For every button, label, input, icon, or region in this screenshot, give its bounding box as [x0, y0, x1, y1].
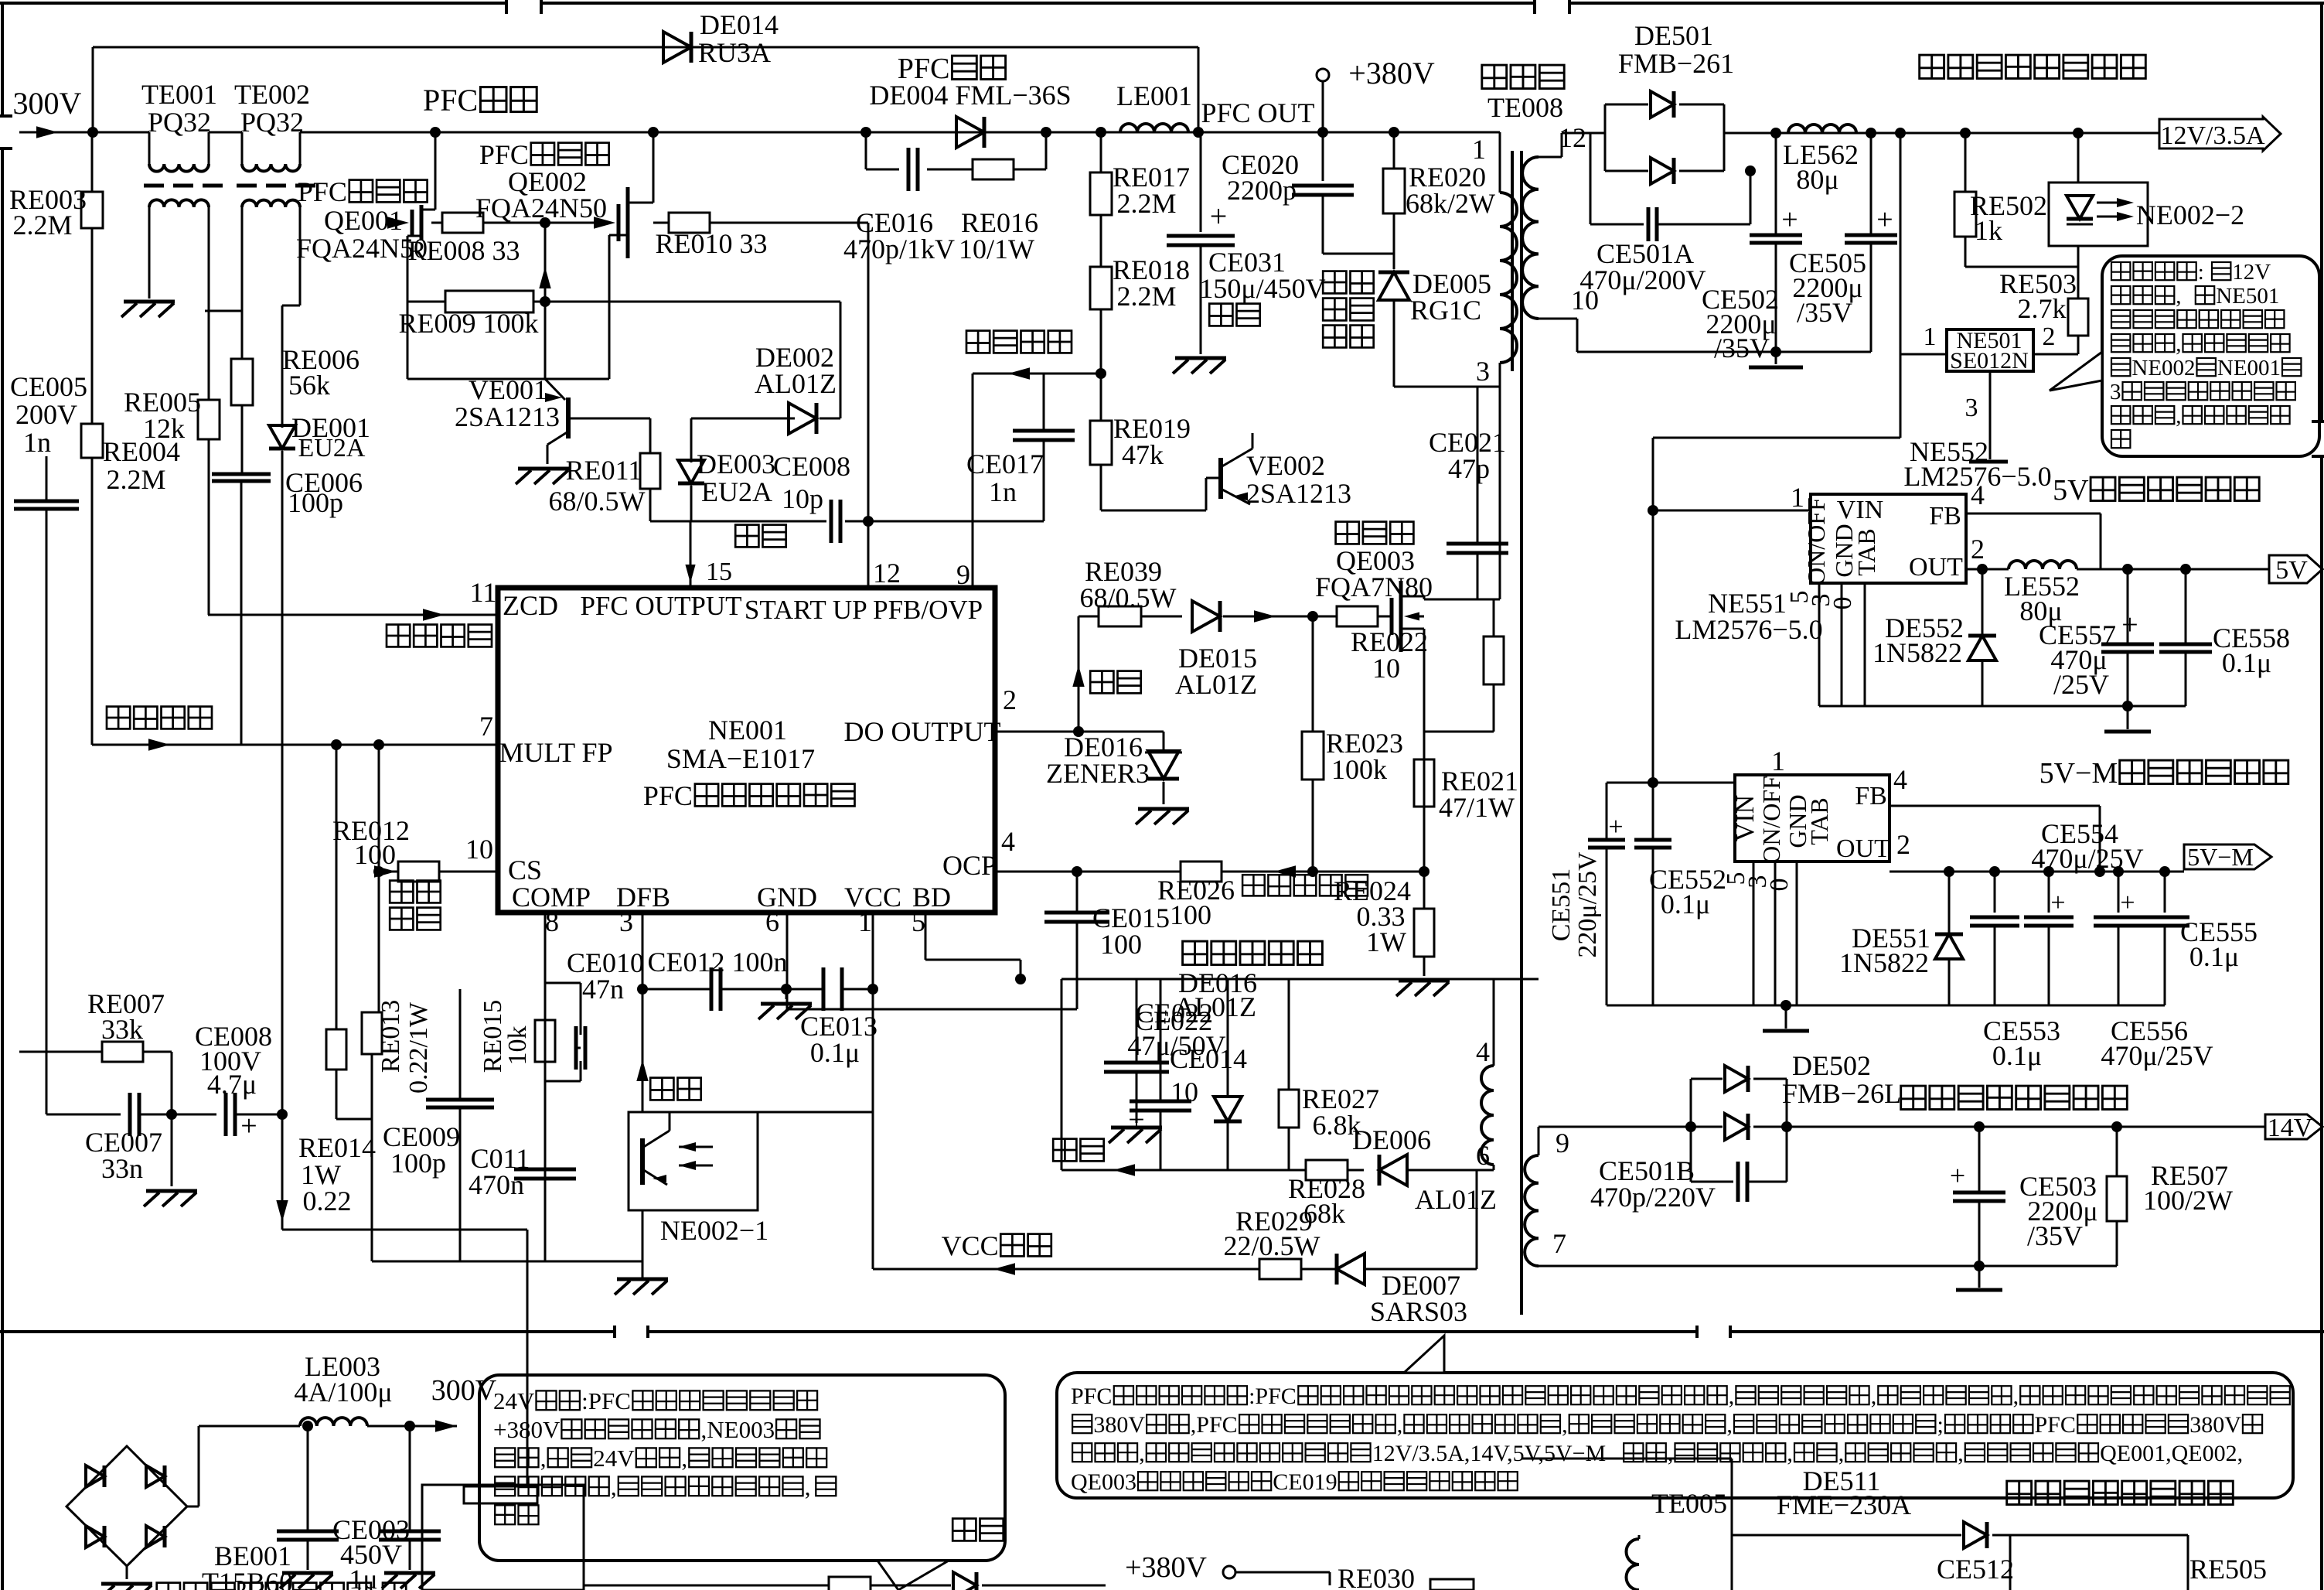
- svg-text:8: 8: [545, 906, 559, 937]
- svg-text:2SA1213: 2SA1213: [1246, 478, 1351, 509]
- svg-text:1: 1: [1472, 134, 1486, 165]
- wire opto collector: [670, 989, 873, 1131]
- capacitor CE008b: [172, 1021, 282, 1142]
- svg-text:/35V: /35V: [2027, 1220, 2083, 1251]
- capacitor CE031: [1167, 132, 1326, 354]
- svg-text:,: ,: [611, 1473, 617, 1500]
- wire emitter row: [407, 378, 609, 380]
- label NE552: [1903, 436, 2051, 492]
- svg-text:,: ,: [681, 1445, 687, 1472]
- return bus 10: [1539, 285, 1871, 357]
- NE003 box: [422, 1485, 584, 1590]
- label DE016: [1174, 967, 1257, 1022]
- resistor RE008: [407, 213, 545, 266]
- svg-text:1: 1: [858, 906, 872, 937]
- label CE022: [1127, 1005, 1225, 1061]
- svg-text:CE008: CE008: [773, 451, 850, 482]
- svg-text:,: ,: [2176, 404, 2181, 428]
- svg-text:FMB−26L: FMB−26L: [1782, 1078, 1901, 1109]
- diode DE016z: [1046, 732, 1182, 804]
- resistor RE026: [1157, 862, 1429, 930]
- svg-text:300V: 300V: [13, 86, 82, 121]
- label mains sample: [107, 707, 212, 729]
- capacitor CE007: [46, 1093, 177, 1184]
- diode DE015: [1175, 601, 1337, 700]
- capacitor CE005: [10, 371, 87, 1114]
- flag 12V: [2159, 117, 2281, 151]
- capacitor CE557: [2039, 564, 2154, 706]
- wire down to startup: [276, 1109, 527, 1485]
- pin 3: [619, 906, 642, 1112]
- capacitor CE555: [2140, 866, 2258, 1005]
- svg-text:,: ,: [1871, 1384, 1877, 1409]
- svg-text:220μ/25V: 220μ/25V: [1573, 851, 1602, 958]
- svg-text:NE002−1: NE002−1: [660, 1215, 768, 1246]
- label PFC OUT: [1201, 97, 1314, 128]
- svg-text:470p/220V: 470p/220V: [1590, 1182, 1716, 1213]
- pin 11: [208, 577, 498, 621]
- svg-text:47k: 47k: [1122, 439, 1164, 470]
- label 380V bottom: [1125, 1551, 1235, 1584]
- svg-text:PFC: PFC: [298, 176, 347, 207]
- svg-text::PFC: :PFC: [581, 1387, 631, 1414]
- svg-text:RE010 33: RE010 33: [655, 228, 767, 259]
- mosfet QE003: [1392, 581, 1424, 872]
- svg-text:AL01Z: AL01Z: [1415, 1184, 1497, 1215]
- resistor RE021: [1414, 759, 1518, 823]
- pin 8: [545, 906, 559, 1261]
- svg-text:100k: 100k: [1331, 754, 1387, 785]
- label 14V title: [1901, 1086, 2128, 1109]
- svg-text:+: +: [1781, 203, 1798, 236]
- feedback top line: [1015, 974, 1539, 1170]
- label +380V: [1317, 56, 1435, 132]
- NE552 pin4: [1966, 479, 2101, 569]
- border frame left: [0, 3, 12, 1590]
- svg-text:2: 2: [1003, 684, 1017, 715]
- wire 300V rail: [209, 131, 1120, 134]
- resistor RE007: [19, 988, 172, 1114]
- label start: [952, 1519, 1004, 1541]
- svg-text:RE505: RE505: [2189, 1554, 2267, 1585]
- svg-text:+380V: +380V: [1348, 56, 1435, 90]
- resistor RE012: [332, 815, 498, 882]
- ground DE016z: [1136, 809, 1189, 824]
- svg-text:+: +: [2121, 609, 2138, 641]
- svg-text:QE001,QE002,: QE001,QE002,: [2100, 1441, 2243, 1466]
- svg-text:150μ/450V: 150μ/450V: [1199, 273, 1325, 304]
- svg-text:2: 2: [2043, 322, 2056, 351]
- ground RE024: [1396, 981, 1450, 996]
- resistor RE005: [124, 311, 242, 615]
- svg-text:2.2M: 2.2M: [106, 464, 165, 495]
- separator line: [0, 1326, 2324, 1338]
- svg-text:,: ,: [1838, 1441, 1845, 1466]
- svg-text:MULT FP: MULT FP: [499, 737, 612, 768]
- pin 12: [873, 558, 901, 589]
- svg-text:DE502: DE502: [1792, 1050, 1871, 1081]
- svg-text:1k: 1k: [1975, 215, 2002, 246]
- svg-text:1n: 1n: [989, 476, 1017, 507]
- TE008 primary: [1472, 132, 1517, 387]
- svg-text:TE008: TE008: [1487, 92, 1563, 123]
- NE552 pin1: [1653, 482, 1811, 513]
- inductor LE562: [1783, 125, 1859, 195]
- optocoupler NE002-2: [2049, 133, 2244, 246]
- wire drive vertical: [539, 217, 550, 379]
- diode DE552: [1872, 564, 1996, 706]
- wire opto emitter: [642, 1210, 644, 1261]
- resistor RE503: [1999, 246, 2088, 354]
- svg-text:START UP PFB/OVP: START UP PFB/OVP: [745, 595, 983, 625]
- svg-text:/35V: /35V: [1797, 297, 1852, 328]
- mosfet QE001: [387, 127, 441, 379]
- svg-text:2.2M: 2.2M: [1116, 188, 1176, 219]
- svg-text:6: 6: [1476, 1140, 1490, 1171]
- svg-text:470p/1kV: 470p/1kV: [843, 234, 955, 264]
- startup wire: [584, 1572, 1106, 1590]
- svg-text:80μ: 80μ: [1796, 164, 1838, 195]
- diode DE007: [1337, 1254, 1477, 1327]
- label spike absorb: [1323, 271, 1374, 348]
- pin15 feed: [685, 521, 732, 586]
- wire base row: [691, 418, 795, 420]
- capacitor CE553c: [1970, 866, 2060, 1071]
- svg-text:RE004: RE004: [103, 436, 180, 467]
- label CE512: [1937, 1535, 2014, 1590]
- svg-text:10k: 10k: [503, 1026, 532, 1066]
- label PFC circuit: [423, 83, 537, 118]
- svg-text:+: +: [2120, 889, 2135, 917]
- svg-text:+: +: [1950, 1160, 1965, 1191]
- diode DEfb: [1214, 979, 1242, 1170]
- svg-text:RE014: RE014: [298, 1132, 376, 1163]
- svg-text:FB: FB: [1929, 502, 1961, 531]
- svg-text:5V: 5V: [2053, 474, 2089, 507]
- NE551 pin1: [1653, 746, 1785, 783]
- svg-text:56k: 56k: [288, 370, 330, 401]
- NE552 pin2: [1966, 534, 1985, 569]
- svg-text:VCC: VCC: [942, 1230, 999, 1261]
- bottom wire: [1732, 1522, 2188, 1548]
- svg-text:RE030: RE030: [1337, 1563, 1415, 1590]
- svg-text:0.22: 0.22: [303, 1186, 352, 1216]
- svg-text:PFC: PFC: [643, 780, 693, 811]
- svg-text:SMA−E1017: SMA−E1017: [666, 743, 815, 774]
- svg-text:33n: 33n: [101, 1153, 143, 1184]
- svg-text:100/2W: 100/2W: [2143, 1185, 2233, 1216]
- wire CS vertical: [373, 739, 384, 1012]
- svg-text:10: 10: [1571, 285, 1599, 316]
- svg-text:,: ,: [1139, 1441, 1145, 1466]
- ground bus gnd: [787, 1008, 1077, 1011]
- label feedback: [1053, 1139, 1104, 1162]
- diode DE006: [1352, 1124, 1497, 1215]
- label bottom title: [2007, 1481, 2234, 1504]
- svg-text:100: 100: [354, 839, 396, 870]
- svg-text:PFC: PFC: [479, 139, 529, 170]
- svg-text:+: +: [240, 1110, 257, 1142]
- capacitor CE022: [1128, 979, 1213, 1170]
- capacitor CE503: [1950, 1121, 2098, 1266]
- ground CE031: [1173, 358, 1226, 374]
- flag 5V: [2269, 555, 2322, 585]
- svg-text:68/0.5W: 68/0.5W: [1080, 582, 1177, 613]
- pin 9: [956, 374, 973, 590]
- svg-text:2: 2: [1896, 829, 1910, 860]
- svg-text:+: +: [1210, 199, 1228, 234]
- svg-text:200V: 200V: [15, 399, 77, 430]
- TE008 sec 9-7: [1525, 1127, 1691, 1266]
- svg-text:CE012 100n: CE012 100n: [647, 947, 787, 978]
- svg-text:PFC: PFC: [423, 83, 478, 118]
- svg-text:TE005: TE005: [1651, 1488, 1727, 1519]
- svg-text:RE008 33: RE008 33: [407, 235, 520, 266]
- resistor RE029: [1224, 1206, 1336, 1279]
- svg-text:10: 10: [465, 834, 493, 865]
- capacitor CE551: [1547, 783, 1653, 1005]
- diode DE004: [956, 117, 984, 148]
- svg-text:CE551: CE551: [1547, 868, 1576, 941]
- IC NE551: [1731, 775, 1890, 864]
- node 300V input wire: [13, 86, 149, 138]
- NE551 pin2: [1890, 829, 2184, 877]
- svg-text:SARS03: SARS03: [1370, 1296, 1467, 1327]
- svg-text:6: 6: [765, 906, 779, 937]
- flag 5VM: [2184, 843, 2271, 871]
- ground VE001: [516, 469, 569, 484]
- svg-text:12: 12: [1559, 122, 1586, 153]
- resistor RE507: [2107, 1121, 2233, 1266]
- svg-text:PFC OUTPUT: PFC OUTPUT: [580, 591, 741, 621]
- svg-text:2.2M: 2.2M: [1116, 281, 1176, 312]
- resistor RE011: [549, 418, 660, 521]
- svg-text:10p: 10p: [782, 483, 823, 514]
- border frame right: [2312, 3, 2324, 1590]
- svg-text::PFC: :PFC: [1249, 1384, 1297, 1409]
- callout PFC box: [1057, 1336, 2293, 1498]
- svg-text:,: ,: [2013, 1384, 2019, 1409]
- svg-text:FQA24N50: FQA24N50: [475, 193, 607, 223]
- inductor LE003: [199, 1351, 497, 1432]
- pin 4: [995, 826, 1181, 872]
- svg-text:0.1μ: 0.1μ: [2222, 647, 2271, 678]
- svg-text:470μ/25V: 470μ/25V: [2101, 1040, 2213, 1071]
- pin 6: [765, 906, 787, 1009]
- resistor RE023: [1302, 616, 1403, 877]
- resistor RE027: [1279, 979, 1379, 1170]
- svg-text:100: 100: [1170, 899, 1211, 930]
- svg-text:47/1W: 47/1W: [1439, 792, 1515, 823]
- svg-text:QE003: QE003: [1071, 1469, 1136, 1495]
- label stabilize: [650, 1078, 701, 1100]
- svg-text:470n: 470n: [469, 1169, 524, 1200]
- resistor RE009: [398, 291, 550, 339]
- svg-text:0.22/1W: 0.22/1W: [404, 1001, 433, 1094]
- capacitor CE556c: [2094, 866, 2213, 1071]
- svg-text:/25V: /25V: [2053, 669, 2109, 700]
- svg-text:RE009 100k: RE009 100k: [398, 308, 538, 339]
- ground CE012: [758, 989, 812, 1019]
- label OCP zh: [1242, 875, 1368, 896]
- svg-text:5V−M: 5V−M: [2039, 757, 2118, 790]
- svg-text:FMB−261: FMB−261: [1618, 48, 1734, 79]
- svg-text:CS: CS: [508, 855, 542, 885]
- svg-text:PQ32: PQ32: [240, 107, 304, 138]
- NE501 pin1: [1900, 133, 1947, 354]
- svg-text:RE011: RE011: [566, 455, 642, 486]
- svg-text:47p: 47p: [1448, 453, 1490, 484]
- VIN supply wire: [1648, 354, 1900, 788]
- capacitor CE008-10p: [691, 451, 1044, 543]
- svg-text:,: ,: [1787, 1441, 1793, 1466]
- svg-text:NE501: NE501: [2216, 284, 2279, 309]
- svg-text:22/0.5W: 22/0.5W: [1224, 1230, 1320, 1261]
- capacitor CE553d: [2024, 866, 2074, 1005]
- capacitor CE010: [545, 947, 644, 1081]
- bottom right frame: [1522, 1459, 1732, 1590]
- svg-text:NE002−2: NE002−2: [2136, 200, 2244, 230]
- svg-text:+380V: +380V: [1125, 1551, 1207, 1584]
- flag 14V: [2265, 1114, 2322, 1142]
- wire CE009 top: [459, 989, 462, 1054]
- 14V gnd rail: [1539, 1261, 2117, 1290]
- capacitor CE006: [212, 467, 363, 745]
- wire QE003 drain: [1424, 596, 1500, 599]
- pin 7: [92, 711, 498, 751]
- svg-text:VE002: VE002: [1246, 450, 1325, 481]
- transistor VE001: [545, 379, 650, 464]
- svg-text:+380V: +380V: [493, 1416, 561, 1443]
- svg-text:,: ,: [2176, 332, 2181, 357]
- svg-text:9: 9: [956, 559, 970, 590]
- svg-text:4A/100μ: 4A/100μ: [294, 1377, 392, 1407]
- svg-text:11: 11: [470, 577, 497, 608]
- capacitor CE017: [966, 374, 1075, 521]
- capacitor CE558: [2159, 564, 2290, 706]
- wire VE002 up: [1252, 433, 1254, 449]
- svg-text:ZCD: ZCD: [503, 590, 558, 621]
- label DE511: [1777, 1465, 1911, 1520]
- wire RE011 DE003 bottom: [650, 520, 691, 523]
- svg-text:7: 7: [1552, 1228, 1566, 1259]
- svg-text:24V: 24V: [493, 1387, 535, 1414]
- svg-text:OUT: OUT: [1909, 553, 1963, 582]
- ground 12V bus: [1749, 352, 1803, 367]
- IC NE501: [1947, 328, 2033, 374]
- ground CE014: [1109, 1128, 1162, 1143]
- junction PFC OUT: [1188, 47, 1323, 138]
- diode DE551: [1839, 866, 1963, 1005]
- label excite2: [1072, 665, 1141, 693]
- label sec rect title: [1920, 55, 2146, 78]
- svg-text:4: 4: [1476, 1036, 1490, 1067]
- feedback wire: [1061, 1164, 1306, 1175]
- label RE030: [1235, 1563, 1474, 1590]
- svg-text:,: ,: [2176, 284, 2181, 309]
- svg-text:,: ,: [1668, 1441, 1674, 1466]
- svg-text:FQA7N80: FQA7N80: [1315, 572, 1433, 602]
- label TE005: [1651, 1488, 1727, 1519]
- svg-text:0.1μ: 0.1μ: [810, 1037, 860, 1068]
- capacitor C011: [469, 1143, 576, 1200]
- capacitor CE505: [1789, 133, 1897, 352]
- bridge BE001: [66, 1446, 293, 1590]
- diode DE502 pair: [1685, 1066, 1792, 1140]
- capacitor CE003: [277, 1421, 410, 1590]
- svg-text:T15B60: T15B60: [202, 1567, 293, 1590]
- svg-text:4.7μ: 4.7μ: [207, 1069, 257, 1100]
- svg-text:,: ,: [1729, 1384, 1735, 1409]
- svg-text:4: 4: [1001, 826, 1015, 857]
- svg-text:2: 2: [1971, 534, 1985, 565]
- svg-text:15: 15: [706, 558, 732, 586]
- svg-text:FME−230A: FME−230A: [1777, 1489, 1911, 1520]
- optocoupler NE002-1: [629, 1112, 768, 1246]
- label excite1: [735, 525, 786, 548]
- diode DE001: [269, 305, 370, 1114]
- svg-text:,: ,: [540, 1445, 547, 1472]
- svg-text:CE005: CE005: [10, 371, 87, 402]
- resistor RE015: [479, 1000, 555, 1073]
- svg-text:,: ,: [1397, 1412, 1403, 1438]
- svg-text:1N5822: 1N5822: [1872, 637, 1962, 668]
- svg-text:0.1μ: 0.1μ: [1661, 889, 1710, 920]
- svg-text:RE013: RE013: [377, 1000, 405, 1073]
- resistor RE003: [9, 132, 103, 424]
- svg-text:68k/2W: 68k/2W: [1406, 188, 1495, 219]
- svg-text:RG1C: RG1C: [1410, 295, 1481, 326]
- svg-text:,: ,: [1562, 1412, 1568, 1438]
- capacitor CE012: [647, 947, 787, 1011]
- svg-text:VCC: VCC: [844, 882, 901, 913]
- capacitor CE021: [1429, 387, 1508, 599]
- TE008 core: [1512, 151, 1522, 1315]
- resistor RE018: [1090, 254, 1190, 379]
- svg-text:4: 4: [1971, 479, 1985, 510]
- resistor RE017: [1090, 127, 1190, 267]
- NE501 pin2: [2033, 322, 2078, 354]
- svg-text:DE004 FML−36S: DE004 FML−36S: [869, 80, 1071, 111]
- svg-text:2200p: 2200p: [1227, 175, 1297, 206]
- svg-text:12V/3.5A,14V,5V,5V−M: 12V/3.5A,14V,5V,5V−M: [1372, 1441, 1607, 1466]
- label DE502: [1782, 1050, 1901, 1109]
- resistor RE502: [1954, 133, 2078, 267]
- bottom bus: [372, 1261, 642, 1263]
- ground TE001: [121, 302, 175, 317]
- svg-text:LM2576−5.0: LM2576−5.0: [1675, 614, 1822, 645]
- svg-text:OCP: OCP: [942, 850, 997, 881]
- svg-text:3: 3: [1476, 356, 1490, 387]
- svg-text:33k: 33k: [101, 1014, 143, 1045]
- svg-text:0.1μ: 0.1μ: [1992, 1040, 2042, 1071]
- inductor LE552: [1982, 561, 2269, 626]
- svg-text:300V: 300V: [431, 1374, 497, 1407]
- junction 380: [1317, 127, 1500, 138]
- transformer TE001: [141, 79, 223, 311]
- wire pin2 riser: [1073, 616, 1084, 737]
- svg-text:RU3A: RU3A: [698, 37, 771, 68]
- svg-text:0.1μ: 0.1μ: [2189, 941, 2239, 972]
- svg-text:+: +: [1128, 1104, 1144, 1136]
- label DE501: [1618, 20, 1734, 79]
- border frame top: [0, 0, 2324, 14]
- svg-text:3: 3: [619, 906, 633, 937]
- capacitor CE009: [383, 1054, 494, 1261]
- label PFC switch QE001: [296, 176, 428, 264]
- svg-text:AL01Z: AL01Z: [1175, 669, 1257, 700]
- svg-text:;: ;: [1937, 1412, 1944, 1438]
